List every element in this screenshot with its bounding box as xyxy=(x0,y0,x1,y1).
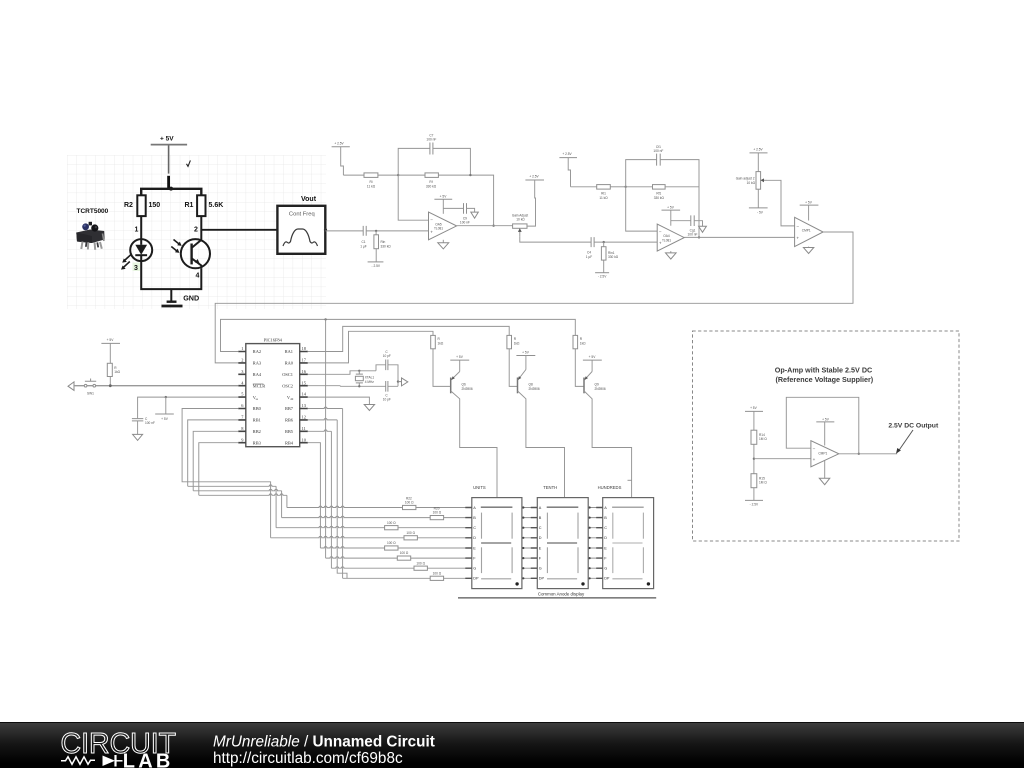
svg-text:RB5: RB5 xyxy=(285,429,294,434)
svg-text:5.6K: 5.6K xyxy=(209,202,224,209)
Vout block (Cont Freq) xyxy=(277,196,325,254)
node junction output stage2 xyxy=(698,236,700,238)
svg-text:dd: dd xyxy=(290,397,294,401)
svg-text:−: − xyxy=(796,224,799,229)
checkmark annotation xyxy=(187,160,191,166)
svg-text:18: 18 xyxy=(302,346,307,351)
svg-text:−: − xyxy=(813,446,816,451)
op-amp OA4 TL081 xyxy=(657,224,684,251)
wire Vss line left xyxy=(138,397,239,418)
wire LED to bottom rail xyxy=(141,261,201,289)
wire power branch to bypass cap xyxy=(443,207,463,209)
svg-text:RB4: RB4 xyxy=(285,440,294,445)
svg-text:B: B xyxy=(539,516,542,520)
wire pot2 wiper to CMP1 - input xyxy=(767,180,795,226)
svg-text:4 MHz: 4 MHz xyxy=(365,380,375,384)
svg-text:+ 5V: + 5V xyxy=(160,136,174,143)
resistor 100 (segment E) xyxy=(385,541,472,550)
+5V supply rail (Q8 emitter) xyxy=(516,350,535,369)
wire base resistor 2 to Q8 base xyxy=(509,349,517,387)
svg-text:B: B xyxy=(473,516,476,520)
wire underline common anode xyxy=(458,597,656,599)
svg-text:10 pF: 10 pF xyxy=(383,398,391,402)
resistor Rin1 330k xyxy=(601,242,618,260)
capacitor C7 100nF (feedback) xyxy=(426,134,436,155)
svg-text:RB7: RB7 xyxy=(285,406,294,411)
capacitor Cf1 100nF (feedback) xyxy=(653,145,663,166)
svg-text:100 Ω: 100 Ω xyxy=(387,541,396,545)
svg-text:R: R xyxy=(580,337,583,341)
port arrow MCLR (left) xyxy=(68,382,74,391)
svg-text:1M Ω: 1M Ω xyxy=(759,481,767,485)
svg-text:14: 14 xyxy=(302,392,307,397)
wire Cf1 right then down to output xyxy=(660,160,699,238)
capacitor Cg1 100nF (bypass) xyxy=(688,215,698,236)
svg-text:11 kΩ: 11 kΩ xyxy=(599,196,608,200)
svg-text:2: 2 xyxy=(194,227,198,234)
wire RA2 up and right to hundreds driver xyxy=(221,319,576,351)
resistor 100 (segment F) xyxy=(397,551,472,560)
node junction Vss branch xyxy=(165,396,167,398)
wire node up to feedback top xyxy=(626,160,657,187)
wire Cg1 to ground xyxy=(694,221,702,227)
svg-text:3: 3 xyxy=(134,265,138,272)
node junction divider xyxy=(753,458,755,460)
svg-text:9: 9 xyxy=(241,437,244,442)
decimal point HUNDREDS xyxy=(647,582,650,585)
svg-text:11 kΩ: 11 kΩ xyxy=(367,185,376,189)
node junction port xyxy=(397,380,399,382)
logo diode symbol xyxy=(103,756,116,767)
svg-text:100 Ω: 100 Ω xyxy=(387,521,396,525)
svg-text:1kΩ: 1kΩ xyxy=(514,342,520,346)
svg-text:100 Ω: 100 Ω xyxy=(406,531,415,535)
svg-text:Common Anode display: Common Anode display xyxy=(538,591,585,596)
svg-text:10 kΩ: 10 kΩ xyxy=(516,218,525,222)
svg-text:7: 7 xyxy=(241,415,244,420)
resistor R14 1M xyxy=(751,430,767,444)
wire Vdd to ground xyxy=(308,397,370,404)
svg-text:100 Ω: 100 Ω xyxy=(400,551,409,555)
svg-text:11: 11 xyxy=(302,426,306,431)
wire bias to Ri xyxy=(343,174,364,176)
wire RB0 to segment row D xyxy=(182,409,271,538)
node junction C4/Rin1 xyxy=(603,241,605,243)
dashed enclosure box xyxy=(693,331,960,541)
svg-text:150: 150 xyxy=(149,202,161,209)
svg-text:100 nF: 100 nF xyxy=(426,138,436,142)
pin numbers right xyxy=(302,346,307,442)
svg-text:LAB: LAB xyxy=(123,750,174,768)
-2.5V supply rail (below Rin) xyxy=(368,249,384,268)
wire +5V down to junction xyxy=(168,146,170,174)
wire CMP1 output loop back to PIC RA3 xyxy=(215,232,853,363)
svg-text:D: D xyxy=(539,536,542,540)
svg-text:RB6: RB6 xyxy=(285,418,294,423)
ground (below OA5) xyxy=(438,240,449,249)
svg-text:GND: GND xyxy=(183,294,199,303)
wire cap to ground xyxy=(137,421,139,435)
+5V supply rail (OA5 power) xyxy=(434,194,452,213)
svg-text:OSC1: OSC1 xyxy=(282,372,293,377)
node junction (inverting node) xyxy=(397,174,399,176)
wire bias to Ri1 xyxy=(571,186,597,188)
svg-text:1: 1 xyxy=(135,227,139,234)
capacitor C 10pF (OSC1) xyxy=(383,350,391,370)
resistor R1 5.6K xyxy=(185,195,224,216)
svg-text:G: G xyxy=(539,567,542,571)
svg-text:2N3906: 2N3906 xyxy=(595,387,606,391)
wire RB3 to segment row A xyxy=(199,494,287,495)
svg-text:CMP1: CMP1 xyxy=(802,229,811,233)
svg-text:10 pF: 10 pF xyxy=(383,354,391,358)
resistor Rf 330k (feedback) xyxy=(425,173,438,189)
svg-text:+: + xyxy=(796,236,799,241)
grid background patch (sensor screenshot region) xyxy=(67,155,326,309)
decimal point TENTH xyxy=(581,582,584,585)
svg-text:100 nF: 100 nF xyxy=(688,233,698,237)
wire divider middle xyxy=(753,444,755,473)
svg-text:RB1: RB1 xyxy=(253,418,261,423)
svg-text:+: + xyxy=(430,229,433,234)
capacitor C1 1uF (coupling) xyxy=(360,226,366,249)
svg-text:+ 5V: + 5V xyxy=(107,338,115,342)
svg-text:1M Ω: 1M Ω xyxy=(759,437,767,441)
node junction dot xyxy=(169,187,173,191)
transistor Q9 2N3906 xyxy=(584,372,632,498)
pin names left column xyxy=(253,349,266,445)
wire RB2 to segment row B xyxy=(193,489,281,490)
wire R2 to LED xyxy=(140,216,142,239)
wire OSC2 line xyxy=(308,385,398,388)
resistor 100 (segment DP) xyxy=(430,571,472,580)
svg-text:5: 5 xyxy=(241,392,244,397)
wire RB6 to segment row DP (jog) xyxy=(308,419,337,420)
display DS2 TENTH xyxy=(537,485,588,588)
svg-text:1kΩ: 1kΩ xyxy=(438,342,444,346)
svg-text:330 kΩ: 330 kΩ xyxy=(608,255,619,259)
svg-text:CMP1: CMP1 xyxy=(818,451,827,455)
ground (below OA4) xyxy=(666,251,677,259)
svg-text:−: − xyxy=(430,218,433,223)
svg-text:100 nF: 100 nF xyxy=(460,220,470,224)
+2.5V supply rail (stage1 input bias) xyxy=(332,141,350,175)
resistor 100 (segment G) xyxy=(414,561,472,570)
IC U1 PIC16F84 xyxy=(246,338,300,447)
node junction crystal bottom xyxy=(358,385,360,387)
node junction on RA2 line xyxy=(324,318,326,320)
svg-text:+ 5V: + 5V xyxy=(667,206,675,210)
segments UNITS xyxy=(481,507,513,579)
svg-text:6: 6 xyxy=(241,403,244,408)
svg-text:100 Ω: 100 Ω xyxy=(416,561,425,565)
svg-text:TCRT5000: TCRT5000 xyxy=(77,208,109,215)
svg-text:+ 5V: + 5V xyxy=(161,417,169,421)
node junction after Rf xyxy=(469,174,471,176)
svg-text:330 kΩ: 330 kΩ xyxy=(426,185,437,189)
svg-text:15: 15 xyxy=(302,380,307,385)
+5V supply rail (buffer power) xyxy=(816,417,834,445)
crystal XTAL1 4MHz xyxy=(355,371,374,387)
capacitor C 10pF (OSC2) xyxy=(383,381,391,402)
svg-text:C: C xyxy=(473,526,476,530)
svg-text:DP: DP xyxy=(539,577,545,581)
resistor Rf1 330k (feedback) xyxy=(653,185,666,200)
wire node up to feedback top xyxy=(398,148,430,175)
display DS3 HUNDREDS xyxy=(598,485,654,588)
svg-text:100 nF: 100 nF xyxy=(653,149,663,153)
ground (bypass Cg1) xyxy=(699,226,707,232)
port arrow (clock out) xyxy=(398,378,408,386)
svg-text:+ 2.5V: + 2.5V xyxy=(753,147,763,151)
svg-text:4: 4 xyxy=(196,272,200,279)
svg-text:RA4: RA4 xyxy=(253,372,262,377)
svg-text:(Reference Voltage Supplier): (Reference Voltage Supplier) xyxy=(775,375,873,384)
svg-text:E: E xyxy=(473,546,476,550)
+5V supply rail (divider top) xyxy=(745,406,763,430)
svg-text:C: C xyxy=(539,526,542,530)
svg-text:Ri: Ri xyxy=(369,180,372,184)
wire Ri1 to inverting node xyxy=(610,186,625,188)
segment pin letters HUNDREDS xyxy=(604,506,610,581)
svg-text:RA1: RA1 xyxy=(285,349,293,354)
wire OA5 output to gain pot xyxy=(457,225,513,227)
pin numbers left xyxy=(241,346,244,442)
pin stubs right 10-18 xyxy=(300,352,308,443)
svg-text:RA3: RA3 xyxy=(253,361,262,366)
-5V supply rail (pot2 bottom) xyxy=(749,189,768,214)
svg-text:http://circuitlab.com/cf69b8c: http://circuitlab.com/cf69b8c xyxy=(213,750,403,767)
potentiometer Gain Adjust 10k xyxy=(512,214,528,237)
svg-text:+ 2.5V: + 2.5V xyxy=(529,174,539,178)
node junction crystal top xyxy=(358,370,360,372)
wire buffer output xyxy=(839,453,897,455)
svg-text:R15: R15 xyxy=(759,476,765,480)
segment pin letters TENTH xyxy=(539,506,545,581)
wire pot wiper down to stage2 input xyxy=(520,236,591,242)
svg-text:1 µF: 1 µF xyxy=(586,255,592,259)
svg-text:Rf: Rf xyxy=(429,180,432,184)
wire node through Rf to output drop xyxy=(398,175,493,226)
svg-text:8: 8 xyxy=(241,426,244,431)
pin label 3 xyxy=(133,263,141,272)
svg-text:12: 12 xyxy=(302,415,306,420)
svg-text:Vout: Vout xyxy=(301,196,317,203)
ground (Vdd line) xyxy=(364,405,374,411)
capacitor C9 100nF (bypass) xyxy=(460,203,470,224)
svg-text:RA0: RA0 xyxy=(285,361,294,366)
wire MCLR line xyxy=(74,385,238,387)
wire base resistor 1 to Q6 base xyxy=(433,349,451,387)
annotation arrow 2.5V DC Output xyxy=(888,423,939,454)
ground (below C) xyxy=(133,434,143,440)
segments HUNDREDS xyxy=(612,507,644,579)
bus wires UNITS to TENTH xyxy=(522,508,537,579)
wire feedback loop xyxy=(786,397,859,454)
svg-text:1 µF: 1 µF xyxy=(360,244,366,248)
resistor R 1k (tenth base) xyxy=(507,335,520,348)
svg-text:D: D xyxy=(473,536,476,540)
wire RB1 to segment row C xyxy=(188,485,276,486)
svg-text:E: E xyxy=(539,546,542,550)
display DS1 UNITS (7-seg common anode) xyxy=(472,485,522,588)
wire Ri to inverting node xyxy=(378,174,398,176)
resistor R 1k (MCLR pullup) xyxy=(107,363,120,376)
svg-text:R2: R2 xyxy=(124,202,133,209)
svg-text:RB3: RB3 xyxy=(253,440,262,445)
node junction C1/Rin xyxy=(375,230,377,232)
svg-text:HUNDREDS: HUNDREDS xyxy=(598,485,622,490)
svg-text:+ 5V: + 5V xyxy=(805,201,813,205)
bus wires TENTH to HUNDREDS xyxy=(588,508,603,579)
resistor 100 (segment C) xyxy=(385,521,472,530)
wire inverting node down to OA4 - input xyxy=(626,187,658,231)
resistor R15 1M xyxy=(751,474,767,488)
wire pullup to MCLR line xyxy=(109,377,111,386)
wire C9 to ground xyxy=(467,208,475,212)
pin stubs left 1-9 xyxy=(238,352,246,443)
svg-text:RB2: RB2 xyxy=(253,429,261,434)
wire base resistor 3 to Q9 base xyxy=(575,349,584,387)
wire C1 to op-amp + input xyxy=(366,230,428,232)
wire C7 right to drop xyxy=(433,148,471,175)
svg-text:+ 5V: + 5V xyxy=(822,417,830,421)
resistor R 1k (hundreds base) xyxy=(573,335,586,348)
svg-text:100 Ω: 100 Ω xyxy=(433,511,442,515)
resistor Rin 330k xyxy=(374,231,391,249)
wire cap line upper xyxy=(376,365,398,387)
svg-text:10: 10 xyxy=(302,437,307,442)
svg-text:TL081: TL081 xyxy=(434,226,443,230)
transistor Q6 2N3906 xyxy=(451,372,497,498)
node junction at output xyxy=(492,225,494,227)
ground (below buffer) xyxy=(819,461,830,485)
svg-text:UNITS: UNITS xyxy=(473,485,486,490)
capacitor C 100nF (Vss decoupling) xyxy=(132,417,155,425)
+5V supply rail (sensor) xyxy=(151,136,187,145)
svg-text:+ 2.5V: + 2.5V xyxy=(334,141,344,145)
switch SW1 xyxy=(84,379,96,396)
svg-text:- 2.5V: - 2.5V xyxy=(598,275,607,279)
svg-text:A: A xyxy=(539,506,542,510)
op-amp CMP1 (reference buffer) xyxy=(811,441,839,467)
svg-text:100 Ω: 100 Ω xyxy=(405,501,414,505)
junction dots UNITS right xyxy=(522,506,524,579)
svg-text:+ 5V: + 5V xyxy=(589,355,597,359)
wire row F feed xyxy=(326,557,398,558)
LED D1 (emitter of TCRT5000) xyxy=(121,239,152,270)
svg-text:3: 3 xyxy=(241,369,244,374)
svg-text:D: D xyxy=(604,536,607,540)
MCLR overline xyxy=(253,383,264,385)
wire R1 to phototransistor collector xyxy=(200,216,202,240)
svg-text:RA2: RA2 xyxy=(253,349,261,354)
op-amp OA5 TL081 xyxy=(429,212,457,240)
wire input line Vout to + input xyxy=(326,230,364,232)
+2.5V supply rail (pot top) xyxy=(525,174,544,226)
ground GND (sensor) xyxy=(162,289,200,306)
junction dots TENTH right xyxy=(589,506,591,579)
resistor R2 150 xyxy=(124,195,160,216)
logo resistor zigzag xyxy=(61,757,95,765)
svg-text:1: 1 xyxy=(241,346,243,351)
svg-text:R: R xyxy=(114,366,117,370)
segments TENTH xyxy=(547,507,579,579)
node junction feedback/output xyxy=(858,453,860,455)
svg-text:G: G xyxy=(604,567,607,571)
svg-text:- 2.5V: - 2.5V xyxy=(750,502,759,506)
svg-text:4: 4 xyxy=(241,380,244,385)
node junction (inverting node stage2) xyxy=(625,186,627,188)
svg-text:TL081: TL081 xyxy=(662,238,671,242)
+2.5V supply rail (stage2 bias) xyxy=(559,152,577,187)
svg-text:1kΩ: 1kΩ xyxy=(114,370,120,374)
ground (below CMP1) xyxy=(803,247,813,254)
wire RA1 up and right to tenth driver xyxy=(308,326,509,351)
svg-text:+ 5V: + 5V xyxy=(750,406,758,410)
svg-text:R: R xyxy=(514,337,517,341)
svg-text:- 5V: - 5V xyxy=(757,210,764,214)
svg-text:SW1: SW1 xyxy=(87,391,94,395)
svg-text:DP: DP xyxy=(473,577,479,581)
svg-text:R: R xyxy=(438,337,441,341)
-2.5V supply rail (divider bottom) xyxy=(745,488,763,507)
svg-text:330 kΩ: 330 kΩ xyxy=(654,196,665,200)
wire top rail between R2 and R1 branches xyxy=(141,189,201,196)
svg-text:R14: R14 xyxy=(759,433,765,437)
svg-text:G: G xyxy=(473,567,476,571)
phototransistor Q (TCRT5000 detector) xyxy=(171,239,210,268)
svg-text:2N3906: 2N3906 xyxy=(529,387,540,391)
resistor Ri 11k xyxy=(364,173,378,189)
svg-text:PIC16F84: PIC16F84 xyxy=(264,338,283,343)
svg-text:TENTH: TENTH xyxy=(543,485,557,490)
+5V supply rail (inverted, on Vss line) xyxy=(155,397,174,421)
svg-text:+ 5V: + 5V xyxy=(522,350,530,354)
wire inverting node down to op-amp - input xyxy=(398,175,428,220)
+2.5V supply rail (pot2 top) xyxy=(750,147,768,171)
svg-text:RB0: RB0 xyxy=(253,406,262,411)
resistor R22 100 (segment A) xyxy=(403,496,472,509)
svg-text:−: − xyxy=(659,229,662,234)
wire C4 to OA4 + input xyxy=(594,241,657,243)
-2.5V supply rail (below Rin1) xyxy=(595,260,609,279)
+5V supply rail (OA4 power) xyxy=(662,206,681,226)
resistor 100 (segment D) xyxy=(404,531,472,540)
svg-text:+ 5V: + 5V xyxy=(440,194,448,198)
svg-text:2N3906: 2N3906 xyxy=(462,387,473,391)
+5V supply rail (Q6 emitter) xyxy=(450,355,469,372)
svg-text:2.5V DC Output: 2.5V DC Output xyxy=(888,423,939,430)
svg-text:A: A xyxy=(473,506,476,510)
svg-text:+ 2.5V: + 2.5V xyxy=(562,152,572,156)
svg-text:Cont Freq: Cont Freq xyxy=(289,211,315,217)
pin stubs displays xyxy=(465,508,602,579)
wire RB4 to segment row E xyxy=(308,443,321,548)
wire power branch to bypass cap Cg1 xyxy=(671,220,691,222)
potentiometer Gain adjust 2 10k xyxy=(736,172,767,190)
svg-text:+ 5V: + 5V xyxy=(456,355,464,359)
decimal point UNITS xyxy=(515,582,518,585)
svg-text:16: 16 xyxy=(302,369,307,374)
+5V supply rail (CMP1 power) xyxy=(800,201,819,221)
svg-text:- 2.5V: - 2.5V xyxy=(372,264,381,268)
node dot at Vout output xyxy=(324,228,327,231)
svg-text:17: 17 xyxy=(302,358,307,363)
svg-text:1kΩ: 1kΩ xyxy=(580,342,586,346)
svg-text:Op-Amp with Stable 2.5V DC: Op-Amp with Stable 2.5V DC xyxy=(775,365,872,374)
tick on hundreds anode wire xyxy=(628,479,632,481)
